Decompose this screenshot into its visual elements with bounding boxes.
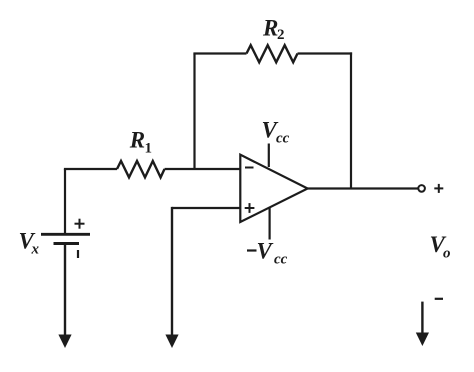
wire : R1 to inverting input (node A) — [165, 168, 241, 170]
wire : feedback loop left vertical (node A up to R2) — [193, 54, 195, 170]
ground : middle arrow under non-inverting input — [165, 335, 178, 349]
wire : source bottom lead — [64, 244, 66, 336]
wire : feedback top-left horizontal — [193, 52, 246, 54]
svg-text:R: R — [262, 15, 278, 40]
svg-text:2: 2 — [277, 27, 285, 43]
battery source Vx : short plate — [54, 242, 80, 245]
label R1 — [129, 127, 152, 156]
wire : source top lead — [64, 169, 66, 234]
resistor R2 — [247, 45, 298, 62]
resistor R1 — [117, 161, 165, 177]
label R2 — [262, 15, 285, 43]
svg-text:cc: cc — [276, 130, 290, 146]
ground : bottom-right arrow — [416, 333, 429, 347]
label -Vcc — [247, 238, 288, 267]
ground : left arrow under source — [58, 335, 71, 349]
label + (non-inverting input) — [245, 203, 255, 213]
label - (inverting input) — [245, 167, 254, 169]
label - (output negative polarity) — [435, 298, 443, 300]
wire : feedback right vertical down to output node — [350, 52, 352, 188]
op-amp U1 — [240, 155, 307, 222]
svg-text:1: 1 — [145, 141, 153, 157]
svg-text:V: V — [257, 238, 274, 263]
label Vo — [430, 232, 451, 262]
label + (battery positive) — [75, 219, 85, 229]
label Vcc — [262, 117, 290, 146]
wire : Vcc supply stub — [268, 144, 270, 168]
label - (battery negative tick) — [77, 250, 79, 258]
wire : -Vcc supply stub — [269, 208, 271, 240]
svg-text:x: x — [31, 242, 40, 258]
node : output terminal (open circle) — [418, 185, 425, 192]
svg-text:o: o — [443, 246, 451, 262]
label + (output polarity) — [434, 184, 443, 193]
wire : feedback top-right horizontal — [298, 52, 353, 54]
wire : output reference arrow stem — [421, 302, 423, 333]
wire : non-inverting input horizontal — [172, 207, 240, 209]
label Vx — [19, 228, 40, 257]
battery source Vx : long plate — [41, 233, 90, 236]
wire : non-inverting input vertical — [171, 207, 173, 335]
wire : output wire from op-amp apex — [308, 187, 418, 189]
wire : input wire from source to R1 — [64, 168, 117, 170]
svg-text:cc: cc — [274, 252, 288, 268]
svg-text:R: R — [129, 127, 145, 152]
